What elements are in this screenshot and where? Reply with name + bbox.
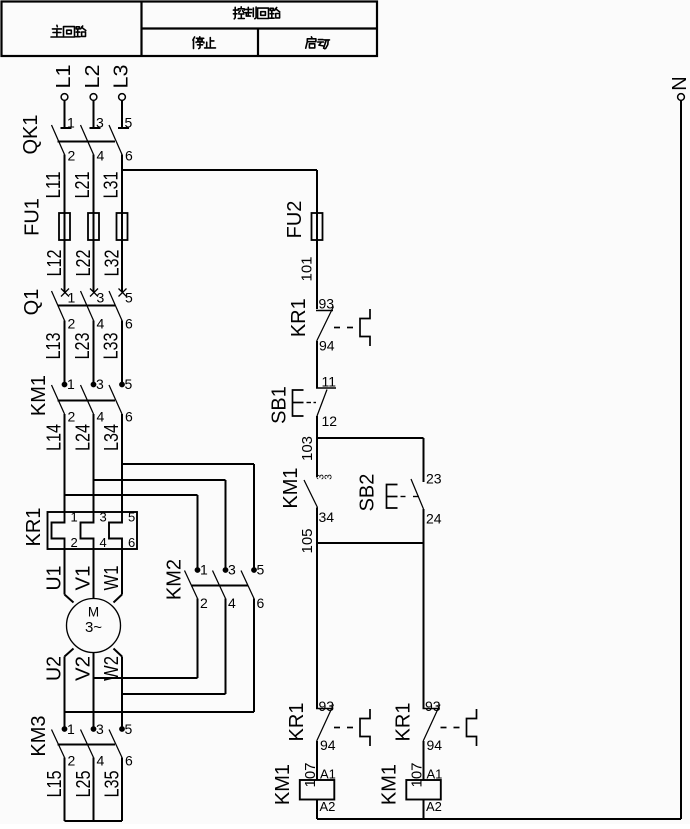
svg-text:34: 34 (319, 509, 335, 525)
svg-text:L34: L34 (101, 424, 123, 451)
svg-text:L3: L3 (111, 65, 133, 89)
svg-text:FU1: FU1 (22, 198, 44, 236)
svg-text:A2: A2 (426, 799, 442, 814)
svg-text:4: 4 (97, 409, 105, 425)
svg-text:4: 4 (100, 535, 107, 550)
svg-text:4: 4 (97, 148, 105, 164)
svg-text:3: 3 (96, 376, 104, 392)
svg-text:L23: L23 (72, 333, 94, 360)
svg-text:SB1: SB1 (269, 386, 291, 424)
svg-text:3: 3 (97, 290, 105, 306)
svg-text:1: 1 (67, 376, 75, 392)
svg-text:3~: 3~ (85, 619, 102, 636)
svg-text:L33: L33 (101, 333, 123, 360)
svg-text:94: 94 (320, 737, 336, 753)
svg-text:SB2: SB2 (357, 474, 379, 512)
svg-text:3: 3 (228, 562, 236, 578)
svg-text:Q1: Q1 (21, 289, 43, 316)
svg-text:3: 3 (96, 115, 104, 131)
svg-text:U2: U2 (44, 656, 66, 681)
svg-text:11: 11 (322, 374, 337, 390)
svg-text:L24: L24 (73, 424, 95, 451)
svg-text:94: 94 (319, 338, 335, 354)
svg-text:M: M (88, 605, 99, 620)
svg-text:1: 1 (67, 721, 75, 737)
svg-text:KM3: KM3 (28, 715, 50, 756)
svg-text:3: 3 (100, 510, 107, 525)
svg-text:L11: L11 (43, 172, 65, 199)
svg-text:L22: L22 (73, 250, 95, 277)
svg-text:KR1: KR1 (288, 298, 310, 337)
svg-text:107: 107 (302, 762, 319, 787)
svg-text:6: 6 (125, 409, 133, 425)
svg-text:L35: L35 (102, 771, 124, 798)
svg-text:1: 1 (200, 562, 208, 578)
svg-text:3: 3 (324, 474, 335, 480)
svg-text:6: 6 (125, 753, 133, 769)
svg-text:2: 2 (68, 409, 76, 425)
svg-text:KM1: KM1 (272, 764, 294, 805)
svg-text:KM2: KM2 (164, 559, 186, 600)
svg-text:L2: L2 (82, 65, 104, 89)
svg-text:L1: L1 (53, 65, 75, 89)
svg-text:4: 4 (97, 753, 105, 769)
svg-text:L14: L14 (44, 424, 66, 451)
svg-text:93: 93 (319, 296, 335, 312)
svg-text:V1: V1 (73, 566, 95, 591)
svg-text:KR1: KR1 (393, 703, 415, 742)
svg-text:V2: V2 (73, 656, 95, 681)
svg-text:103: 103 (299, 436, 316, 461)
svg-text:1: 1 (67, 115, 75, 131)
svg-text:L21: L21 (72, 172, 94, 199)
svg-text:5: 5 (128, 510, 135, 525)
svg-text:6: 6 (125, 316, 133, 332)
svg-text:2: 2 (71, 535, 78, 550)
svg-text:2: 2 (68, 316, 76, 332)
svg-text:QK1: QK1 (20, 114, 42, 154)
svg-text:L31: L31 (101, 172, 123, 199)
svg-text:KM1: KM1 (28, 375, 50, 416)
svg-text:5: 5 (125, 721, 133, 737)
svg-text:93: 93 (319, 698, 335, 714)
svg-text:24: 24 (426, 511, 442, 527)
svg-text:2: 2 (68, 753, 76, 769)
svg-text:KR1: KR1 (286, 703, 308, 742)
svg-text:5: 5 (125, 115, 133, 131)
svg-text:5: 5 (125, 290, 133, 306)
svg-text:93: 93 (425, 698, 441, 714)
svg-text:107: 107 (408, 762, 425, 787)
svg-text:23: 23 (426, 471, 442, 487)
svg-text:6: 6 (257, 595, 265, 611)
svg-text:2: 2 (68, 148, 76, 164)
svg-text:101: 101 (299, 256, 316, 281)
svg-text:94: 94 (427, 737, 443, 753)
svg-text:FU2: FU2 (284, 201, 306, 239)
svg-text:6: 6 (128, 535, 135, 550)
svg-text:4: 4 (228, 595, 236, 611)
svg-text:5: 5 (257, 562, 265, 578)
svg-text:2: 2 (200, 595, 208, 611)
svg-text:1: 1 (71, 510, 78, 525)
svg-text:105: 105 (299, 528, 316, 553)
svg-text:KR1: KR1 (23, 508, 45, 547)
svg-text:L13: L13 (43, 333, 65, 360)
svg-text:A2: A2 (320, 799, 336, 814)
svg-text:6: 6 (125, 148, 133, 164)
svg-text:3: 3 (96, 721, 104, 737)
svg-text:KM1: KM1 (379, 764, 401, 805)
svg-text:12: 12 (322, 413, 338, 429)
svg-text:5: 5 (125, 376, 133, 392)
svg-text:L32: L32 (102, 250, 124, 277)
svg-text:1: 1 (68, 290, 76, 306)
svg-text:4: 4 (97, 316, 105, 332)
svg-text:L15: L15 (44, 771, 66, 798)
svg-text:N: N (669, 76, 690, 90)
svg-text:U1: U1 (44, 566, 66, 591)
svg-text:W1: W1 (101, 566, 123, 591)
svg-text:KM1: KM1 (280, 467, 302, 508)
svg-text:L12: L12 (44, 250, 66, 277)
svg-text:L25: L25 (73, 771, 95, 798)
